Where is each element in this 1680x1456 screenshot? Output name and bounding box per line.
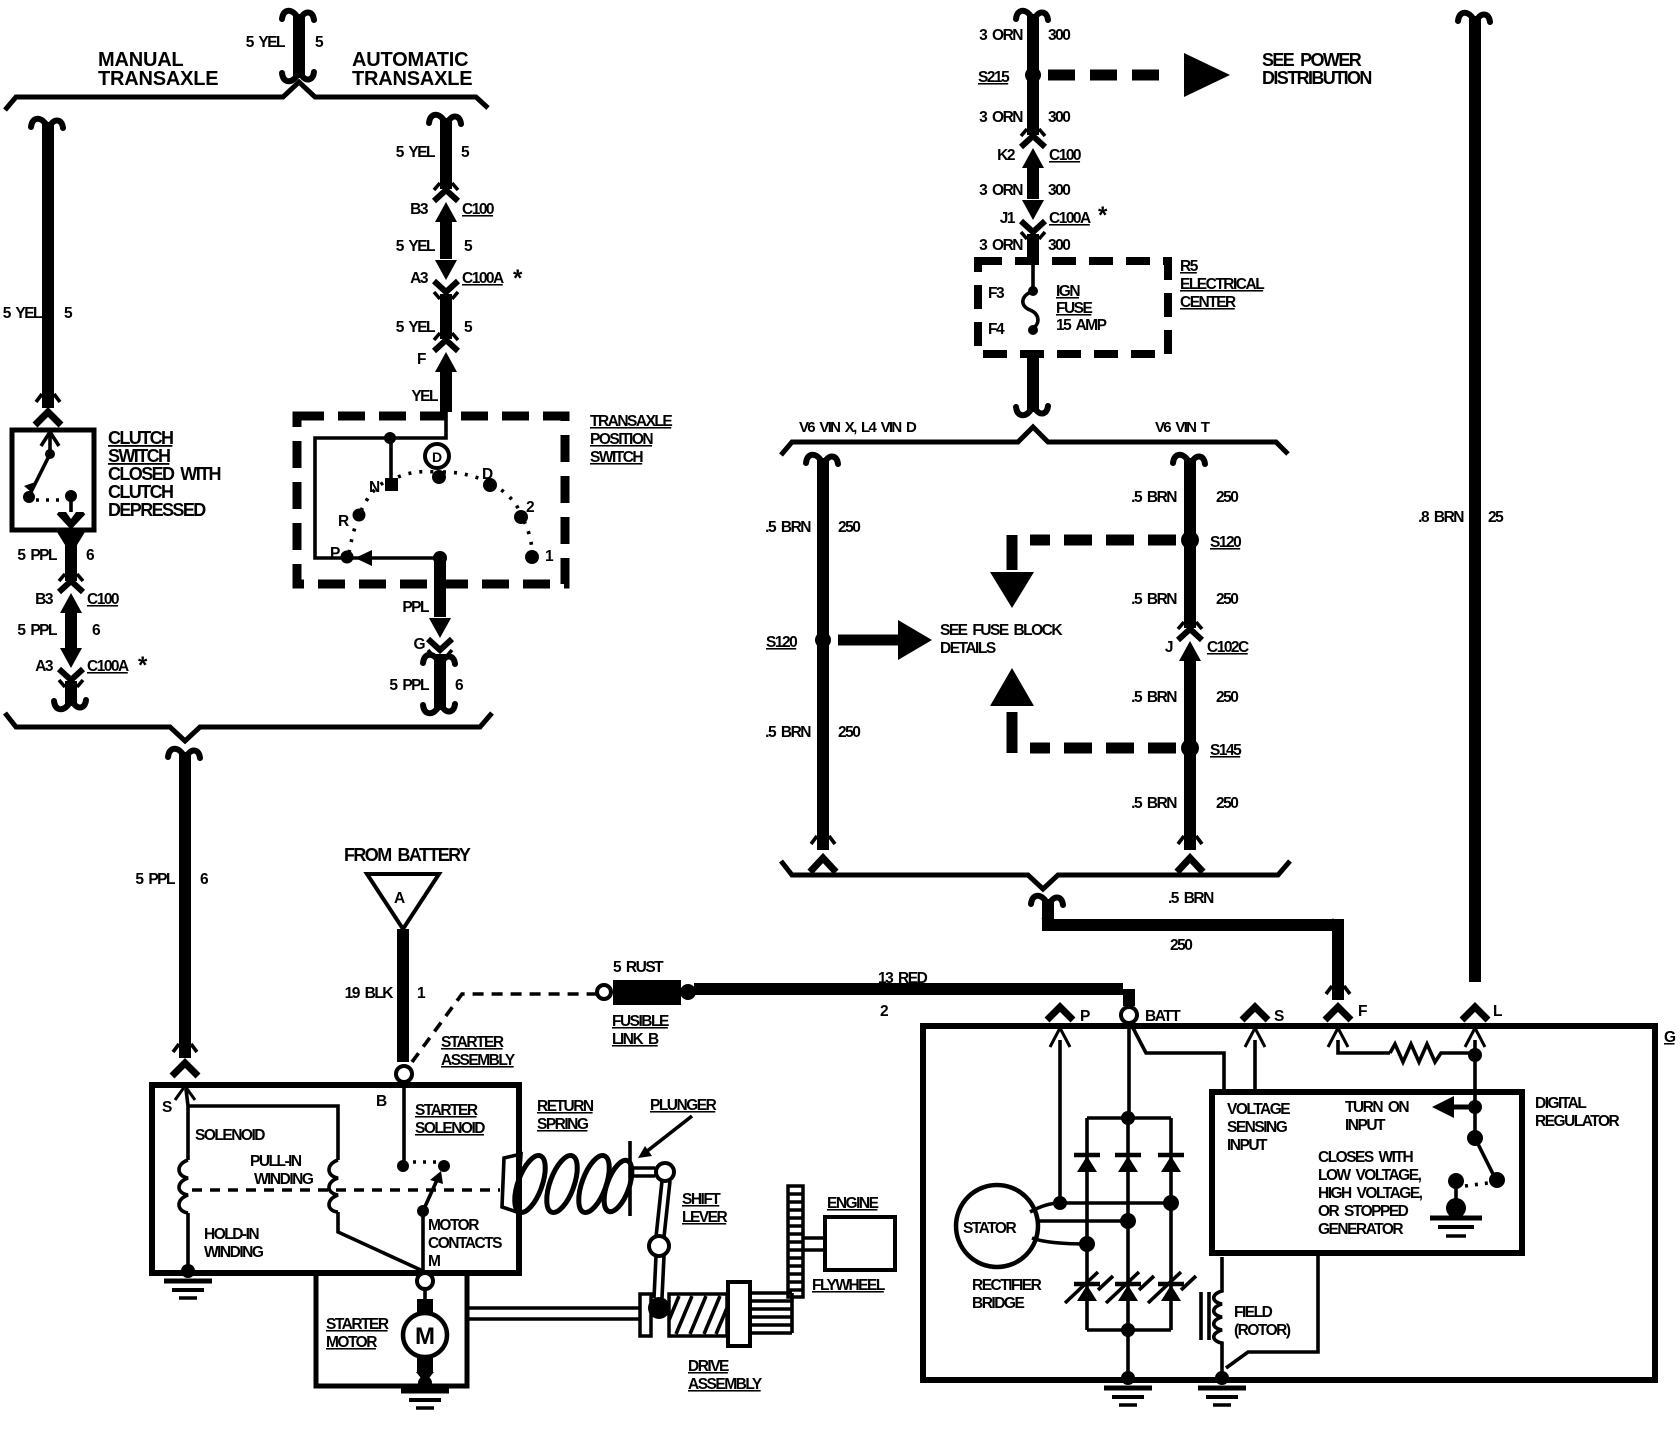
splice S120 (right) <box>1181 531 1241 551</box>
svg-text:FLYWHEEL: FLYWHEEL <box>812 1277 885 1294</box>
svg-text:S120: S120 <box>1210 534 1241 551</box>
label 5 YEL 5 (manual branch) <box>3 305 73 322</box>
wire 19 BLK 1 <box>345 929 426 1062</box>
svg-text:M: M <box>415 1323 435 1350</box>
wire 5 YEL automatic branch <box>396 115 470 189</box>
svg-text:B3: B3 <box>35 591 54 608</box>
fusible link B <box>597 959 696 1048</box>
svg-text:3 ORN: 3 ORN <box>979 27 1023 44</box>
svg-text:PPL: PPL <box>402 599 429 616</box>
svg-text:250: 250 <box>1170 937 1192 954</box>
svg-text:S215: S215 <box>978 69 1010 86</box>
svg-text:A3: A3 <box>35 658 54 675</box>
svg-text:R: R <box>338 513 349 530</box>
svg-text:F: F <box>417 351 426 368</box>
bracket merge manual+auto <box>5 713 492 741</box>
svg-text:SOLENOID: SOLENOID <box>195 1127 265 1144</box>
splice S215 with arrow to power distribution <box>978 53 1230 97</box>
terminal S arrow into starter <box>162 1086 195 1116</box>
svg-text:5 YEL: 5 YEL <box>3 305 42 322</box>
fuse IGN 15 AMP <box>988 258 1107 338</box>
svg-text:3 ORN: 3 ORN <box>979 109 1023 126</box>
connector A3 C100A* (auto) <box>410 260 523 339</box>
svg-text:C100A: C100A <box>87 658 129 675</box>
regulator switch blade <box>1465 1130 1505 1188</box>
transaxle switch contacts and arc <box>341 470 540 564</box>
starter motor ground <box>401 1376 449 1408</box>
rectifier top diodes <box>1074 1155 1184 1172</box>
svg-text:K2: K2 <box>997 147 1015 164</box>
svg-text:G: G <box>413 636 425 653</box>
svg-text:F4: F4 <box>988 321 1005 338</box>
svg-text:5 PPL: 5 PPL <box>17 547 57 564</box>
mechanical link dashed line <box>192 1188 500 1192</box>
svg-text:PLUNGER: PLUNGER <box>650 1097 717 1114</box>
svg-text:250: 250 <box>838 519 860 536</box>
svg-text:SEE POWERDISTRIBUTION: SEE POWERDISTRIBUTION <box>1262 50 1371 88</box>
label 5 PPL 6 (second) <box>17 622 101 639</box>
splice S145 <box>1181 739 1242 759</box>
svg-text:S145: S145 <box>1210 742 1242 759</box>
hold-in winding coil <box>179 1160 188 1213</box>
circled D indicator <box>425 444 449 468</box>
svg-text:RETURNSPRING: RETURNSPRING <box>537 1098 594 1133</box>
field rotor ground <box>1198 1371 1246 1405</box>
svg-text:250: 250 <box>1216 489 1238 506</box>
wire .8 BRN 25 right feed <box>1418 13 1504 982</box>
label 5 PPL 6 (clutch out) <box>17 547 95 564</box>
transaxle switch inner wiring <box>315 412 446 558</box>
svg-text:*: * <box>513 265 523 292</box>
svg-text:.5 BRN: .5 BRN <box>1168 890 1214 907</box>
svg-text:P: P <box>330 545 340 562</box>
stator output wires <box>1030 1195 1179 1252</box>
wire 13 RED 2 <box>694 970 1129 1020</box>
terminal M circle <box>417 1273 433 1289</box>
svg-text:BATT: BATT <box>1145 1008 1181 1025</box>
svg-text:3 ORN: 3 ORN <box>979 182 1023 199</box>
rectifier bottom diodes with slashes <box>1065 1272 1196 1303</box>
wire 5 PPL 6 down to starter <box>168 749 200 1076</box>
wire .5 BRN 250 right VIN branch <box>1131 455 1238 872</box>
svg-text:5 YEL: 5 YEL <box>396 144 435 161</box>
svg-text:FROM BATTERY: FROM BATTERY <box>344 845 471 865</box>
svg-text:300: 300 <box>1048 182 1070 199</box>
svg-text:J: J <box>1165 639 1173 656</box>
svg-text:V6 VIN T: V6 VIN T <box>1155 419 1210 436</box>
turn on input arrow <box>1432 1096 1482 1118</box>
svg-text:5 YEL: 5 YEL <box>246 34 285 51</box>
generator box <box>923 1026 1655 1380</box>
connector J1 C100A* <box>1000 200 1108 258</box>
label 5 YEL 5 (auto lower) <box>396 319 473 336</box>
connector G <box>413 618 455 713</box>
clutch switch <box>12 430 94 530</box>
svg-text:250: 250 <box>1216 591 1238 608</box>
svg-text:B3: B3 <box>410 201 429 218</box>
wire fuse to vin bracket <box>1016 355 1048 415</box>
svg-text:C100: C100 <box>1049 147 1081 164</box>
splice S120 (left) with arrow to fuse block <box>766 620 932 660</box>
svg-text:J1: J1 <box>1000 210 1016 227</box>
svg-text:V6 VIN X, L4 VIN D: V6 VIN X, L4 VIN D <box>799 419 917 436</box>
svg-text:5 PPL: 5 PPL <box>389 677 429 694</box>
svg-text:D: D <box>432 449 442 465</box>
svg-text:250: 250 <box>1216 689 1238 706</box>
voltage regulator box <box>1212 1092 1522 1253</box>
svg-text:.8 BRN: .8 BRN <box>1418 509 1464 526</box>
svg-text:G: G <box>1664 1029 1676 1046</box>
svg-text:STARTERSOLENOID: STARTERSOLENOID <box>415 1102 485 1137</box>
transaxle switch wiper arrow <box>355 550 447 566</box>
starter motor shaft lines <box>467 1308 640 1319</box>
svg-text:HOLD-INWINDING: HOLD-INWINDING <box>204 1226 264 1261</box>
label 3 ORN 300 (third) <box>979 182 1070 199</box>
svg-text:S: S <box>162 1099 172 1116</box>
starter motor box <box>316 1276 467 1386</box>
svg-text:C100A: C100A <box>462 270 504 287</box>
engine flywheel gear rack <box>788 1186 803 1297</box>
dashed link S145 to fuse block arrow <box>990 668 1176 753</box>
svg-text:5 YEL: 5 YEL <box>396 238 435 255</box>
wire .5 BRN 250 left VIN branch <box>765 455 860 872</box>
label 5 PPL 6 (switch out) <box>389 677 464 694</box>
starter motor M <box>403 1289 447 1383</box>
connector K2 C100 <box>997 129 1081 199</box>
resistor F to L <box>1390 1044 1470 1062</box>
svg-text:.5 BRN: .5 BRN <box>765 519 811 536</box>
rectifier ground <box>1104 1330 1152 1405</box>
label 5 YEL 5 (top feed) <box>246 34 324 51</box>
svg-text:13 RED: 13 RED <box>878 970 928 987</box>
svg-text:C100: C100 <box>87 591 119 608</box>
label 3 ORN 300 (fourth) <box>979 237 1070 254</box>
svg-text:.5 BRN: .5 BRN <box>1131 689 1177 706</box>
wire 3 ORN 300 top feed <box>979 11 1070 70</box>
bracket VIN split <box>781 427 1288 455</box>
connector B3 C100 (left) <box>35 574 119 649</box>
pull-in winding coil <box>329 1160 338 1212</box>
svg-text:.5 BRN: .5 BRN <box>1131 489 1177 506</box>
wire .5 BRN 250 to generator F <box>1031 890 1350 1000</box>
wire 5 PPL below clutch switch <box>57 532 85 581</box>
svg-text:AUTOMATICTRANSAXLE: AUTOMATICTRANSAXLE <box>352 49 472 90</box>
svg-text:B: B <box>376 1093 387 1110</box>
stator <box>956 1185 1038 1267</box>
svg-text:19 BLK: 19 BLK <box>345 985 395 1002</box>
wire 5 YEL top feed <box>282 11 314 81</box>
engine box <box>803 1217 895 1270</box>
label 5 YEL 5 (auto mid) <box>396 238 473 255</box>
drive assembly <box>640 1282 792 1346</box>
svg-text:P: P <box>1080 1008 1090 1025</box>
dashed link S120 to fuse block arrow <box>990 535 1176 608</box>
svg-text:A: A <box>394 890 405 907</box>
regulator switch ground contact <box>1430 1173 1482 1236</box>
wire PPL below switch <box>402 560 440 617</box>
svg-text:25: 25 <box>1488 509 1504 526</box>
svg-text:F: F <box>1358 1003 1367 1020</box>
svg-text:250: 250 <box>838 724 860 741</box>
svg-text:3 ORN: 3 ORN <box>979 237 1023 254</box>
svg-text:C100A: C100A <box>1049 210 1091 227</box>
svg-text:L: L <box>1493 1003 1502 1020</box>
svg-text:5 YEL: 5 YEL <box>396 319 435 336</box>
dashed box R5 electrical center <box>978 261 1168 354</box>
label PLUNGER with pointer <box>638 1097 717 1158</box>
svg-text:S: S <box>1274 1008 1284 1025</box>
svg-text:.5 BRN: .5 BRN <box>765 724 811 741</box>
svg-text:A3: A3 <box>410 270 429 287</box>
starter assembly box <box>152 1085 519 1273</box>
svg-text:250: 250 <box>1216 795 1238 812</box>
wire 3 ORN 300 (second) <box>979 75 1070 135</box>
return spring <box>502 1141 638 1216</box>
shift lever <box>632 1163 674 1319</box>
connector J C102C <box>1165 622 1249 661</box>
transaxle switch position labels <box>330 466 554 565</box>
solenoid frame <box>186 1089 423 1271</box>
connector A3 C100A* (left) <box>35 648 148 709</box>
svg-text:300: 300 <box>1048 237 1070 254</box>
svg-text:2: 2 <box>526 499 534 516</box>
svg-text:300: 300 <box>1048 109 1070 126</box>
svg-text:*: * <box>138 652 148 679</box>
rectifier bridge rails and columns <box>1087 1111 1171 1337</box>
svg-text:.5 BRN: .5 BRN <box>1131 591 1177 608</box>
bracket VIN merge <box>781 861 1290 889</box>
svg-text:ENGINE: ENGINE <box>827 1195 879 1212</box>
field rotor coil <box>1201 1253 1318 1376</box>
svg-text:2: 2 <box>880 1003 888 1020</box>
terminal L <box>1462 1003 1502 1138</box>
svg-text:D: D <box>482 466 493 483</box>
label 5 PPL 6 (main run) <box>135 871 209 888</box>
terminal S <box>1242 1007 1284 1090</box>
terminal BATT <box>1121 1007 1224 1114</box>
svg-text:5 RUST: 5 RUST <box>613 959 664 976</box>
svg-text:F3: F3 <box>988 285 1005 302</box>
svg-text:5 PPL: 5 PPL <box>135 871 175 888</box>
connector B3 C100 (auto) <box>410 183 494 259</box>
svg-text:YEL: YEL <box>411 388 438 405</box>
solenoid ground junction <box>164 1264 212 1298</box>
svg-text:N: N <box>369 479 380 496</box>
svg-text:.5 BRN: .5 BRN <box>1131 795 1177 812</box>
terminal F <box>1325 1003 1390 1053</box>
svg-text:*: * <box>1098 202 1108 229</box>
svg-text:STATOR: STATOR <box>963 1220 1016 1237</box>
transaxle position switch dashed box <box>297 416 565 584</box>
motor contacts <box>397 1160 450 1270</box>
terminal B with circle <box>376 1066 412 1162</box>
svg-text:C100: C100 <box>462 201 494 218</box>
battery feed triangle A <box>367 874 439 929</box>
wire 5 YEL manual branch <box>31 119 63 425</box>
terminal P <box>1047 1007 1090 1198</box>
svg-text:C102C: C102C <box>1207 639 1249 656</box>
svg-text:5 PPL: 5 PPL <box>17 622 57 639</box>
connector F (auto) <box>417 333 458 412</box>
svg-text:S120: S120 <box>766 634 797 651</box>
svg-text:300: 300 <box>1048 27 1070 44</box>
dashed lead to fusible link <box>412 994 596 1062</box>
bracket manual/automatic split <box>5 82 488 110</box>
